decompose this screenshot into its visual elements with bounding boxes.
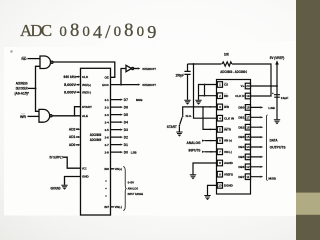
- svg-text:DECODER: DECODER: [16, 86, 28, 90]
- svg-text:DB2: DB2: [238, 125, 244, 129]
- svg-text:2-1: 2-1: [105, 98, 110, 102]
- svg-text:INTR: INTR: [224, 128, 232, 132]
- svg-text:0.000V: 0.000V: [64, 90, 77, 94]
- svg-text:CLK: CLK: [82, 75, 89, 79]
- svg-text:D2: D2: [124, 135, 128, 139]
- svg-text:AD0: AD0: [69, 143, 76, 147]
- svg-text:10: 10: [218, 184, 222, 188]
- svg-text:D6: D6: [124, 105, 128, 109]
- svg-text:CLK IN: CLK IN: [224, 116, 234, 120]
- svg-text:DB4: DB4: [238, 145, 244, 149]
- svg-text:VCC: VCC: [82, 166, 87, 170]
- svg-text:14: 14: [246, 145, 250, 149]
- svg-text:AD2: AD2: [69, 127, 76, 131]
- svg-text:INPUT RANGE: INPUT RANGE: [128, 192, 144, 196]
- svg-text:20: 20: [246, 84, 250, 88]
- svg-text:DB1: DB1: [238, 115, 244, 119]
- svg-text:D1: D1: [124, 143, 128, 147]
- svg-text:18: 18: [246, 106, 250, 110]
- svg-text:DB6: DB6: [238, 165, 244, 169]
- svg-text:V+: V+: [241, 84, 245, 88]
- svg-text:AGND: AGND: [224, 161, 234, 165]
- svg-text:LSB: LSB: [131, 150, 137, 154]
- svg-text:VIN(-): VIN(-): [115, 205, 123, 209]
- svg-text:+: +: [272, 91, 274, 95]
- svg-text:D5: D5: [124, 113, 128, 117]
- svg-text:5V (VREF): 5V (VREF): [270, 56, 285, 60]
- svg-text:VIN (-): VIN (-): [224, 150, 232, 154]
- svg-text:ADC0809: ADC0809: [90, 138, 102, 142]
- svg-text:D4: D4: [124, 120, 128, 124]
- svg-text:N.O.: N.O.: [186, 114, 192, 118]
- svg-text:19: 19: [246, 94, 250, 98]
- svg-text:D3: D3: [124, 128, 128, 132]
- svg-text:WR: WR: [224, 105, 230, 109]
- svg-text:2-6: 2-6: [105, 135, 110, 139]
- svg-text:DGND: DGND: [224, 184, 234, 188]
- svg-text:D0: D0: [124, 150, 128, 154]
- svg-text:ANALOG: ANALOG: [187, 141, 202, 145]
- svg-text:ADC0803 - ADC0804: ADC0803 - ADC0804: [220, 70, 247, 74]
- svg-text:D7: D7: [124, 98, 128, 102]
- svg-text:MSB: MSB: [136, 98, 142, 102]
- svg-text:DB3: DB3: [238, 135, 244, 139]
- svg-text:16: 16: [246, 125, 250, 129]
- svg-text:12: 12: [246, 165, 250, 169]
- svg-text:DATA: DATA: [270, 139, 279, 143]
- svg-text:11: 11: [246, 175, 249, 179]
- svg-text:DB5: DB5: [238, 155, 244, 159]
- svg-text:VREF(+): VREF(+): [82, 83, 91, 87]
- svg-text:2-3: 2-3: [105, 113, 110, 117]
- svg-text:VIN(+): VIN(+): [115, 167, 123, 171]
- svg-text:ADDRESS: ADDRESS: [16, 81, 29, 85]
- svg-text:ANALOG: ANALOG: [128, 186, 139, 190]
- svg-text:(A8-A15)*: (A8-A15)*: [14, 92, 29, 96]
- svg-text:2-7: 2-7: [105, 143, 110, 147]
- svg-text:2-4: 2-4: [105, 120, 110, 124]
- svg-text:DB0: DB0: [238, 106, 244, 110]
- svg-text:START: START: [82, 105, 92, 109]
- svg-text:ALE: ALE: [82, 114, 88, 118]
- svg-text:ADC0808: ADC0808: [90, 133, 102, 137]
- svg-text:0-5V: 0-5V: [128, 181, 135, 185]
- svg-text:150pF: 150pF: [176, 73, 185, 77]
- svg-text:LSB: LSB: [268, 106, 275, 110]
- svg-text:VREF/2: VREF/2: [224, 172, 233, 176]
- svg-text:IN7: IN7: [104, 205, 109, 209]
- svg-text:OE: OE: [104, 76, 108, 80]
- svg-text:RD: RD: [21, 57, 27, 61]
- svg-text:INPUTS: INPUTS: [189, 148, 201, 152]
- svg-text:5V SUPPLY: 5V SUPPLY: [50, 155, 64, 159]
- svg-text:VREF(-): VREF(-): [82, 90, 91, 94]
- svg-text:640 kHz: 640 kHz: [64, 75, 77, 79]
- svg-text:2-8: 2-8: [105, 150, 110, 154]
- svg-text:IN0: IN0: [104, 167, 109, 171]
- svg-text:2-5: 2-5: [105, 128, 110, 132]
- svg-text:10μF: 10μF: [281, 96, 289, 100]
- svg-text:2-2: 2-2: [105, 105, 110, 109]
- svg-text:OUTPUTS: OUTPUTS: [270, 145, 286, 149]
- svg-text:WR: WR: [20, 115, 26, 119]
- svg-text:15: 15: [246, 135, 250, 139]
- svg-text:DB7: DB7: [238, 175, 244, 179]
- svg-text:GND: GND: [82, 175, 90, 179]
- svg-text:10K: 10K: [224, 53, 230, 57]
- svg-text:START: START: [167, 125, 177, 129]
- svg-text:MSB: MSB: [268, 177, 276, 181]
- svg-text:EOC: EOC: [102, 83, 109, 87]
- svg-text:AD1: AD1: [69, 135, 76, 139]
- svg-text:VIN (+): VIN (+): [224, 139, 232, 143]
- svg-text:INTERRUPT: INTERRUPT: [142, 83, 156, 87]
- svg-text:CS: CS: [224, 83, 228, 87]
- svg-text:5.000V: 5.000V: [64, 83, 77, 87]
- svg-text:17: 17: [246, 115, 250, 119]
- svg-text:13: 13: [246, 155, 250, 159]
- svg-text:CLK R: CLK R: [235, 94, 245, 98]
- svg-text:GROUND: GROUND: [51, 186, 61, 190]
- svg-text:INTERRUPT: INTERRUPT: [142, 67, 156, 71]
